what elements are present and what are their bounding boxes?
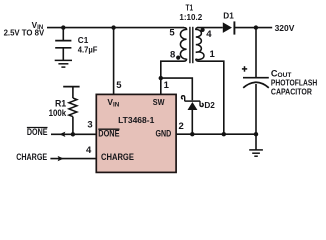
svg-text:100k: 100k	[49, 108, 67, 118]
wire ground rail	[176, 133, 256, 135]
value label Cout PHOTOFLASH CAPACITOR	[271, 69, 317, 97]
svg-text:4: 4	[86, 145, 92, 156]
node junction dot 320V	[254, 25, 258, 29]
wire DONE	[51, 133, 96, 135]
wire CHARGE	[50, 158, 96, 160]
svg-text:CHARGE: CHARGE	[16, 152, 47, 162]
capacitor Cout polarity +	[242, 66, 247, 72]
node junction dot SW net	[159, 76, 163, 80]
transformer T1 secondary winding	[196, 28, 204, 60]
svg-text:4.7µF: 4.7µF	[78, 45, 98, 54]
node VIN label	[4, 21, 45, 38]
ground below C1	[55, 60, 72, 67]
node junction dot at C1 top	[61, 25, 65, 29]
transformer T1 core	[190, 27, 193, 63]
node DONE output label	[27, 127, 48, 137]
svg-text:D1: D1	[223, 12, 234, 21]
transformer T1 label	[179, 4, 202, 22]
node junction dot D2 anode	[190, 132, 194, 136]
value label R1 100k	[49, 98, 67, 118]
IC LT3468-1 body	[96, 94, 176, 172]
svg-text:320V: 320V	[275, 24, 295, 33]
wire D1 to output node	[234, 27, 256, 29]
svg-text:1: 1	[210, 49, 216, 60]
diode D2 (Schottky)	[182, 96, 204, 134]
wire secondary top to D1	[197, 27, 223, 29]
svg-text:GND: GND	[156, 128, 172, 138]
svg-text:R1: R1	[55, 98, 66, 108]
phase dot primary (pin 8)	[176, 56, 180, 60]
wire VIN rail	[47, 27, 184, 29]
node junction dot secondary return	[222, 132, 226, 136]
svg-text:CAPACITOR: CAPACITOR	[271, 87, 312, 96]
wire SW pin to primary bottom	[161, 59, 187, 95]
phase dot secondary (pin 4)	[201, 28, 205, 32]
resistor R1	[63, 87, 79, 135]
arrow DONE (points left)	[59, 132, 65, 137]
wire VIN pin 5 lead	[113, 28, 115, 95]
svg-text:C1: C1	[78, 36, 89, 45]
svg-text:SW: SW	[153, 97, 165, 107]
svg-text:2.5V TO 8V: 2.5V TO 8V	[4, 28, 45, 37]
svg-text:CHARGE: CHARGE	[101, 152, 134, 162]
svg-text:3: 3	[87, 120, 92, 131]
svg-text:2: 2	[179, 121, 184, 132]
transformer T1 primary winding	[180, 28, 186, 59]
arrow CHARGE (points right)	[58, 156, 64, 161]
wire secondary bottom to ground rail	[196, 59, 224, 134]
wire C1 top lead	[62, 28, 64, 41]
svg-text:5: 5	[116, 80, 122, 91]
svg-text:1:10.2: 1:10.2	[179, 13, 202, 22]
svg-text:4: 4	[206, 29, 212, 40]
ground at output return	[249, 134, 263, 156]
node junction dot Cout return	[254, 132, 258, 136]
svg-text:8: 8	[170, 50, 175, 61]
svg-text:D2: D2	[204, 101, 215, 110]
svg-text:5: 5	[169, 27, 175, 38]
wire to 320V label	[256, 27, 272, 29]
node junction dot at pin5 wire	[111, 25, 115, 29]
diode D1	[223, 21, 235, 34]
wire C1 bottom lead	[62, 48, 64, 60]
wire Cout bottom lead	[255, 84, 257, 134]
capacitor C1	[55, 41, 71, 48]
value label C1 4.7uF	[78, 36, 98, 54]
pin label DONE inside IC	[98, 128, 119, 138]
svg-text:1: 1	[164, 80, 170, 91]
wire SW net to D2	[161, 78, 193, 100]
svg-text:T1: T1	[186, 4, 194, 13]
node junction dot R1/DONE	[71, 132, 75, 136]
svg-text:LT3468-1: LT3468-1	[118, 115, 154, 125]
wire Cout top lead	[255, 28, 257, 78]
svg-text:DONE: DONE	[27, 127, 48, 137]
capacitor Cout	[243, 78, 269, 88]
svg-text:PHOTOFLASH: PHOTOFLASH	[271, 79, 317, 88]
